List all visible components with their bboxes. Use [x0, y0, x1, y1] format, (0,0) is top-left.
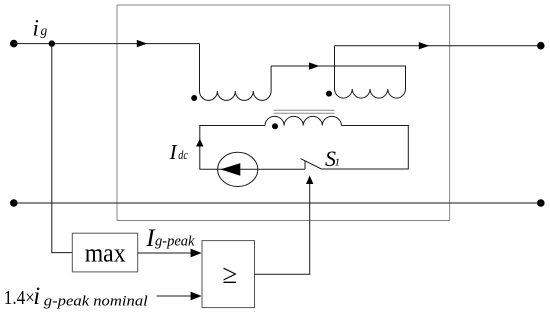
wire: junction down to max block — [52, 44, 73, 253]
svg-text:1.4×: 1.4× — [4, 287, 35, 309]
outer terminal node (top-right) — [537, 42, 545, 50]
arrow to S1 — [306, 176, 313, 185]
arrow on top-right rail — [419, 42, 429, 49]
polarity dot L3 — [272, 123, 278, 129]
arrow: max to comparator — [191, 249, 202, 258]
outer terminal node (bottom-left) — [10, 199, 18, 207]
wire: comparator output to S1 — [255, 184, 310, 274]
wire: dc loop right side — [321, 126, 408, 170]
svg-text:g-peak: g-peak — [155, 234, 195, 250]
svg-text:max: max — [85, 239, 126, 268]
svg-text:≥: ≥ — [223, 259, 238, 289]
wire: L1 to L2 link — [271, 66, 405, 89]
wire: max to comparator — [138, 252, 192, 254]
current source I1 — [218, 152, 258, 186]
wire: top-right rail — [335, 45, 541, 47]
wire: top-left rail — [14, 43, 200, 45]
switch S1 — [301, 159, 322, 170]
arrow on top-left rail — [137, 40, 147, 47]
junction node — [49, 40, 55, 46]
max block — [72, 233, 137, 272]
transformer core lines — [274, 110, 335, 113]
svg-text:I: I — [169, 140, 178, 164]
svg-text:1: 1 — [335, 157, 341, 169]
converter boundary box — [117, 5, 450, 221]
polarity dot L2 — [326, 91, 332, 97]
inductor L1 (input winding) — [200, 44, 272, 101]
outer terminal node (top-left) — [10, 40, 18, 48]
svg-text:g-peak nominal: g-peak nominal — [44, 294, 148, 310]
arrow on link wire — [309, 62, 319, 69]
arrow I_dc (up) — [196, 139, 203, 147]
wire: dc loop left side — [200, 126, 305, 170]
comparator block — [202, 241, 255, 308]
svg-text:i: i — [33, 15, 39, 40]
svg-text:dc: dc — [178, 147, 188, 162]
current source arrow (left) — [221, 163, 241, 176]
polarity dot L1 — [191, 95, 197, 101]
svg-text:g: g — [41, 23, 48, 38]
outer terminal node (bottom-right) — [537, 199, 545, 207]
arrow: reference input — [191, 292, 202, 301]
inductor L3 (dc-side winding) — [265, 116, 341, 125]
svg-text:i: i — [33, 283, 40, 310]
inductor L2 (output winding) — [335, 46, 406, 98]
wire: bottom rail — [14, 202, 541, 204]
wire: reference input — [157, 295, 193, 297]
